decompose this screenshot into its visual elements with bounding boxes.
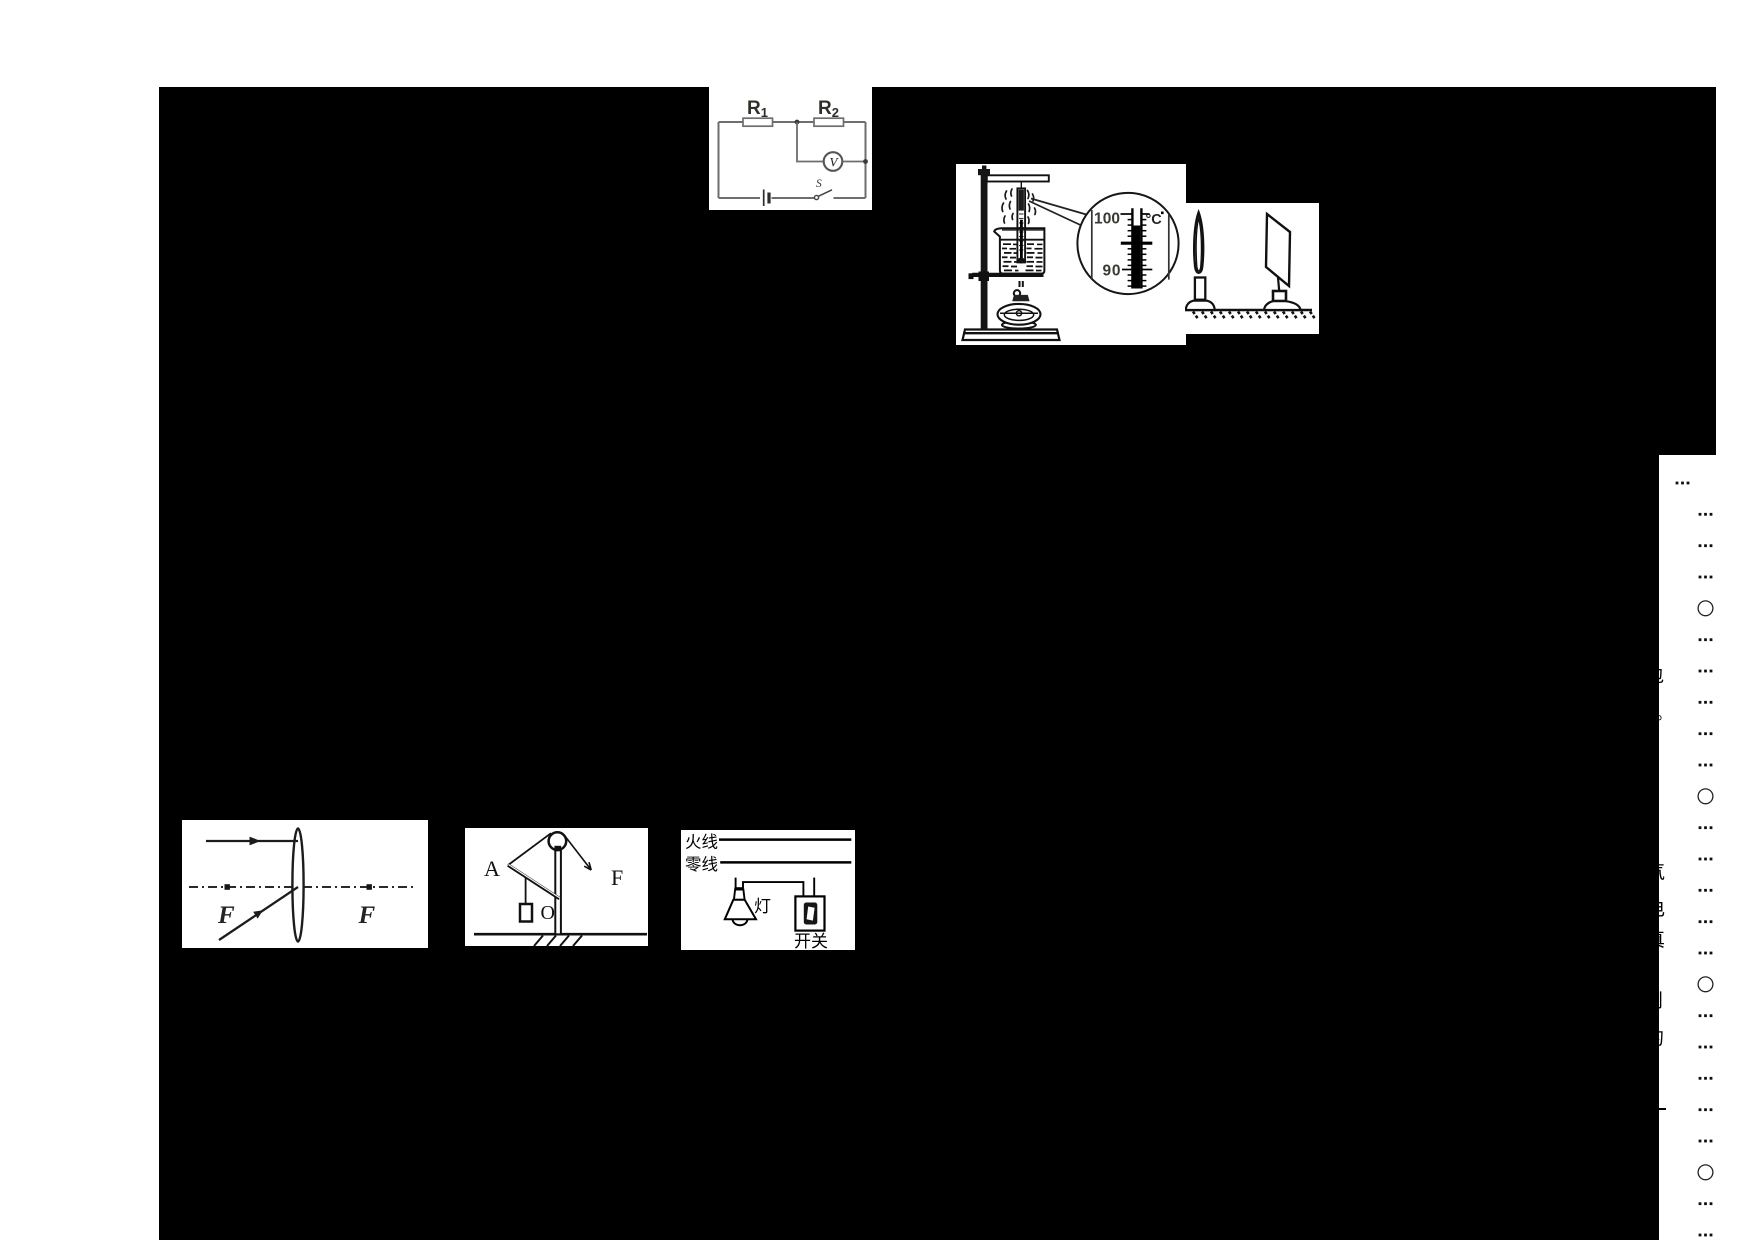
lamp wick — [1020, 281, 1023, 287]
arrowhead F — [584, 862, 591, 870]
margin mark — [1699, 826, 1713, 829]
svg-text:100: 100 — [1094, 211, 1120, 228]
lamp base foot — [1002, 321, 1036, 328]
FIGURE E: lever with pulley on pole — [465, 828, 648, 946]
incident ray through centre — [219, 887, 298, 940]
margin mark — [1699, 544, 1713, 547]
svg-text:O: O — [541, 902, 555, 924]
margin mark — [1698, 601, 1713, 616]
lamp body — [998, 304, 1041, 325]
lamp collar — [1012, 295, 1029, 301]
svg-text:S: S — [816, 178, 822, 190]
wire left branch — [718, 122, 720, 198]
margin mark — [1699, 1108, 1713, 1111]
margin mark — [1698, 1165, 1713, 1180]
FIGURE C: candle and screen on table — [1185, 203, 1319, 334]
ground hatching — [1193, 312, 1316, 320]
switch S — [814, 178, 832, 200]
live wire — [719, 838, 851, 841]
string to weight — [525, 878, 527, 905]
magnifier circle — [1077, 193, 1178, 294]
margin mark — [1699, 638, 1713, 641]
partially hidden Chinese characters under black mask, right edge — [0, 0, 1754, 1]
neutral wire — [720, 861, 851, 864]
screen holder base — [1264, 301, 1301, 310]
svg-text:90: 90 — [1103, 263, 1121, 280]
weight block — [520, 904, 532, 922]
thermometer bulb — [1018, 258, 1025, 264]
node B junction dot — [863, 159, 868, 164]
candle holder base — [1186, 301, 1215, 310]
callout lines to magnifier — [1031, 199, 1088, 216]
stand base — [963, 330, 1060, 341]
minor ticks left of tube — [1128, 220, 1133, 287]
screen holder block — [1273, 291, 1286, 301]
margin mark — [1698, 789, 1713, 804]
level line 100 — [1121, 213, 1133, 215]
margin mark — [1698, 977, 1713, 992]
beaker — [994, 228, 1044, 273]
convex lens — [292, 829, 303, 942]
pulley axle block — [554, 846, 561, 851]
lamp socket — [734, 887, 743, 890]
ground line — [1185, 309, 1312, 311]
ground hatching — [534, 936, 582, 947]
svg-text:开关: 开关 — [794, 932, 828, 950]
svg-text:A: A — [484, 856, 500, 881]
svg-text:F: F — [358, 902, 376, 929]
margin mark — [1699, 732, 1713, 735]
magnified glass left edge — [1091, 210, 1093, 279]
screen board — [1266, 214, 1290, 286]
wick knob — [1014, 290, 1020, 296]
level line 90 — [1122, 269, 1132, 271]
margin mark — [1699, 576, 1713, 579]
margin mark — [1699, 920, 1713, 923]
svg-text:F: F — [217, 902, 235, 929]
incident ray parallel to axis — [206, 840, 298, 842]
steam puffs — [1002, 189, 1036, 224]
lamp inner oil — [1000, 309, 1038, 320]
margin mark — [1699, 513, 1713, 516]
pulley wheel — [549, 832, 567, 850]
candle body — [1195, 278, 1205, 300]
black mask bottom part — [159, 455, 1659, 1240]
margin mark — [1699, 889, 1713, 892]
wire right branch — [865, 122, 867, 198]
voltmeter V — [824, 152, 843, 171]
svg-text:零线: 零线 — [685, 855, 718, 874]
FIGURE F: household wiring — [681, 830, 855, 950]
small dash poking out of black edge — [1650, 1108, 1666, 1110]
switch box — [795, 896, 824, 930]
iron ring — [969, 272, 1044, 282]
switch toggle — [804, 903, 818, 925]
stand pole — [981, 170, 988, 330]
FIGURE D: convex lens ray diagram — [182, 820, 428, 948]
right focus point — [367, 884, 372, 890]
margin mark — [1699, 858, 1713, 861]
level line 95 bold — [1121, 242, 1153, 245]
left focus point — [225, 884, 230, 890]
thermometer tube — [1017, 188, 1025, 262]
boiling water dashes — [1002, 243, 1043, 271]
stand arm — [987, 175, 1049, 181]
margin mark — [1676, 482, 1690, 485]
magnified glass right edge — [1168, 215, 1170, 280]
battery cell — [764, 190, 769, 207]
margin mark — [1699, 1234, 1713, 1237]
margin mark — [1699, 1014, 1713, 1017]
margin mark — [1699, 1077, 1713, 1080]
wire top — [719, 121, 866, 123]
thermometer hanger wire — [1020, 182, 1022, 189]
thermometer scale ticks — [1019, 214, 1024, 250]
arrowhead on oblique ray — [253, 910, 263, 918]
margin mark — [1699, 670, 1713, 673]
rope to F — [566, 837, 592, 870]
svg-text:F: F — [611, 865, 623, 890]
magnified mercury column — [1133, 226, 1140, 289]
svg-text:灯: 灯 — [754, 897, 771, 916]
FIGURE A: series circuit with voltmeter — [709, 87, 872, 210]
resistor R2 — [814, 98, 844, 126]
right margin column of ellipses and circles — [1650, 440, 1754, 1240]
margin mark — [1699, 701, 1713, 704]
svg-text:火线: 火线 — [685, 833, 718, 852]
arrowhead on parallel ray — [250, 837, 261, 846]
lamp bulb arc — [733, 919, 748, 925]
principal axis dash-dot — [189, 886, 413, 888]
black mask top part — [159, 87, 1716, 455]
FIGURE B: heating experiment with magnified thermometer — [956, 164, 1186, 345]
node A junction dot — [795, 120, 800, 125]
minor ticks right of tube — [1142, 220, 1147, 287]
resistor R1 — [743, 98, 773, 126]
switch dangling wire — [813, 878, 815, 897]
rope from A over pulley — [508, 833, 551, 865]
water surface — [1001, 239, 1044, 241]
lever rod OA double line — [508, 865, 560, 899]
thermometer mercury — [1020, 220, 1023, 261]
magnified capillary tube — [1132, 208, 1141, 288]
margin mark — [1699, 764, 1713, 767]
lamp shade — [725, 900, 756, 919]
wire bottom segments — [719, 197, 866, 199]
wire lamp to switch — [743, 882, 803, 896]
vertical pole — [555, 850, 561, 934]
candle flame — [1194, 213, 1203, 273]
margin mark — [1699, 1046, 1713, 1049]
lamp terminal wire — [735, 878, 737, 888]
wire to voltmeter — [797, 122, 824, 162]
wire voltmeter to right branch — [842, 161, 865, 163]
ground line — [474, 933, 647, 936]
margin mark — [1699, 1202, 1713, 1205]
margin mark — [1699, 952, 1713, 955]
screen post — [1278, 278, 1279, 292]
pole top cap — [978, 169, 990, 175]
margin mark — [1699, 1140, 1713, 1143]
